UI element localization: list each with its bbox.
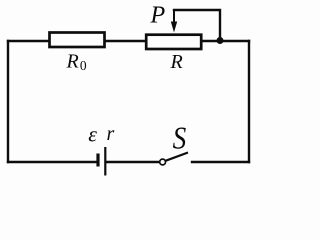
wire bottom-right to switch	[192, 161, 249, 163]
rheostat R	[146, 35, 201, 49]
svg-text:P: P	[150, 3, 166, 29]
battery cell: short thick plate (neg)	[96, 154, 99, 167]
junction node	[217, 37, 224, 44]
svg-text:r: r	[107, 123, 115, 145]
wire top-left horizontal	[8, 40, 49, 42]
wire right vertical	[248, 41, 250, 162]
resistor R0	[50, 33, 105, 48]
switch S pivot circle	[160, 159, 166, 165]
wire between R0 and R	[106, 40, 147, 42]
wiper arrow P	[171, 10, 177, 33]
svg-text:R0: R0	[66, 51, 87, 74]
svg-text:S: S	[173, 122, 187, 156]
wire battery to switch	[106, 161, 160, 163]
svg-text:R: R	[170, 51, 183, 73]
wire left vertical	[7, 41, 9, 162]
battery cell: long thin plate (pos)	[104, 147, 106, 176]
wiper top wire from arrow to junction	[174, 10, 220, 41]
wire R to right border	[202, 40, 249, 42]
switch blade	[166, 153, 189, 161]
wire bottom-left to battery	[8, 161, 97, 163]
svg-text:ε: ε	[88, 121, 97, 146]
